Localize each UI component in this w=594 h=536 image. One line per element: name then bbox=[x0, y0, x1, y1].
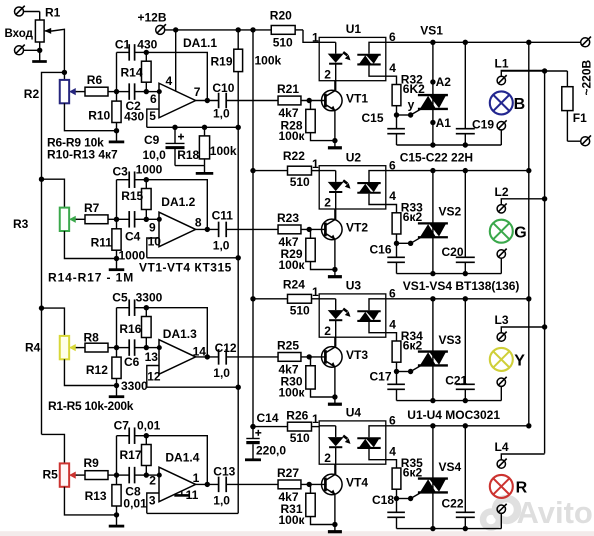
wire mains bus A bbox=[528, 42, 530, 426]
svg-text:100k: 100k bbox=[210, 144, 237, 158]
junction bbox=[250, 424, 255, 429]
svg-text:U1-U4 MOC3021: U1-U4 MOC3021 bbox=[407, 408, 500, 422]
U3 phototriac bbox=[357, 299, 396, 341]
U2 phototriac bbox=[357, 171, 396, 213]
svg-text:VT3: VT3 bbox=[346, 348, 368, 362]
U4 LED bbox=[319, 426, 344, 474]
svg-text:0,01: 0,01 bbox=[123, 497, 147, 511]
wire bbox=[301, 228, 327, 230]
wire bbox=[63, 72, 65, 80]
svg-text:6: 6 bbox=[150, 92, 157, 106]
node gate bbox=[394, 241, 399, 246]
svg-text:5: 5 bbox=[149, 109, 156, 123]
wire riser bbox=[116, 436, 118, 475]
junction bbox=[37, 48, 42, 53]
resistor R17 bbox=[142, 436, 152, 475]
junction bbox=[236, 27, 241, 32]
svg-text:R9: R9 bbox=[84, 456, 100, 470]
node A1 bbox=[430, 116, 451, 130]
svg-text:1,0: 1,0 bbox=[213, 107, 230, 121]
capacitor C5 bbox=[117, 299, 147, 316]
capacitor C9 bbox=[166, 127, 185, 165]
svg-text:C13: C13 bbox=[213, 465, 235, 479]
wire wiper to R9 bbox=[77, 474, 85, 476]
svg-text:6к2: 6к2 bbox=[403, 465, 423, 479]
wire lamp bottom bbox=[500, 513, 502, 528]
svg-text:R21: R21 bbox=[277, 82, 299, 96]
wire lamp bottom bbox=[500, 386, 502, 400]
lamp L3 bottom terminal bbox=[497, 378, 505, 386]
wire collector bbox=[334, 321, 336, 347]
ground emitter bbox=[334, 270, 336, 277]
junction bbox=[114, 128, 119, 133]
node N bbox=[114, 472, 119, 477]
svg-text:R10-R13 4к7: R10-R13 4к7 bbox=[47, 147, 118, 161]
junction bbox=[430, 423, 435, 428]
svg-text:C15: C15 bbox=[362, 111, 384, 125]
lamp L1 bottom terminal bbox=[497, 122, 505, 130]
wire bias line row1 bbox=[147, 126, 239, 128]
svg-text:R13: R13 bbox=[85, 489, 107, 503]
svg-text:C18: C18 bbox=[372, 493, 394, 507]
op-amp DA1.4 bbox=[159, 467, 196, 502]
svg-text:R14-R17 - 1М: R14-R17 - 1М bbox=[48, 271, 134, 285]
wire riser bbox=[116, 308, 118, 348]
node B bbox=[144, 433, 149, 438]
svg-text:3: 3 bbox=[149, 494, 156, 508]
transistor VT1 bbox=[322, 90, 343, 111]
ground bbox=[116, 259, 118, 270]
junction bbox=[430, 40, 435, 45]
U4 phototriac bbox=[357, 426, 396, 468]
svg-text:R3: R3 bbox=[13, 217, 29, 231]
svg-text:1: 1 bbox=[312, 30, 319, 44]
triac VS2 bbox=[418, 171, 448, 274]
svg-text:C12: C12 bbox=[215, 341, 237, 355]
terminal input-bottom bbox=[15, 45, 25, 55]
svg-text:DA1.3: DA1.3 bbox=[163, 327, 197, 341]
svg-text:U1: U1 bbox=[346, 22, 362, 36]
svg-text:R8: R8 bbox=[84, 330, 100, 344]
junction bbox=[463, 526, 468, 531]
svg-text:2: 2 bbox=[324, 67, 331, 81]
junction bbox=[526, 168, 531, 173]
svg-text:F1: F1 bbox=[573, 111, 587, 125]
svg-text:DA1.1: DA1.1 bbox=[183, 36, 217, 50]
svg-text:1,0: 1,0 bbox=[213, 239, 230, 253]
U1 LED bbox=[319, 42, 344, 90]
terminal mains-top bbox=[581, 37, 591, 47]
op-amp DA1.3 bbox=[159, 340, 196, 375]
svg-text:3300: 3300 bbox=[121, 379, 148, 393]
wire non-inverting input bbox=[147, 109, 159, 127]
node A bbox=[144, 217, 149, 222]
resistor R24 bbox=[253, 294, 319, 303]
svg-text:C7: C7 bbox=[114, 419, 130, 433]
wire wiper to R6 bbox=[77, 91, 85, 93]
junction bbox=[205, 354, 210, 359]
wire lamp top bbox=[501, 327, 544, 333]
resistor R15 bbox=[142, 180, 152, 220]
svg-text:C1: C1 bbox=[115, 38, 131, 52]
svg-text:6к2: 6к2 bbox=[403, 210, 423, 224]
svg-text:100к: 100к bbox=[279, 258, 306, 272]
svg-text:11: 11 bbox=[186, 488, 199, 502]
wire collector bbox=[334, 448, 336, 475]
junction bbox=[430, 296, 435, 301]
node B bbox=[144, 305, 149, 310]
wire pot bottom bbox=[64, 359, 116, 385]
capacitor C17 bbox=[387, 372, 405, 401]
capacitor C14 bbox=[246, 430, 261, 460]
capacitor C10 bbox=[218, 93, 220, 109]
terminal input-top bbox=[15, 6, 25, 16]
svg-text:R: R bbox=[516, 480, 528, 497]
junction bbox=[173, 27, 178, 32]
junction bbox=[332, 522, 337, 527]
wire bbox=[226, 483, 278, 485]
wire riser bbox=[116, 180, 118, 220]
svg-text:1000: 1000 bbox=[136, 163, 163, 177]
svg-text:6к2: 6к2 bbox=[403, 338, 423, 352]
svg-text:R11: R11 bbox=[91, 236, 113, 250]
svg-text:6K2: 6K2 bbox=[403, 82, 425, 96]
svg-text:1: 1 bbox=[312, 157, 319, 171]
node A bbox=[144, 345, 149, 350]
svg-text:VS2: VS2 bbox=[439, 205, 462, 219]
svg-text:R24: R24 bbox=[283, 278, 305, 292]
ground bbox=[116, 386, 118, 397]
lamp L1 bbox=[490, 91, 513, 114]
wire output bbox=[196, 356, 219, 358]
junction bbox=[114, 512, 119, 517]
lamp L4 bbox=[490, 475, 513, 498]
svg-text:VS3: VS3 bbox=[439, 333, 462, 347]
wire DA1.1 pin4 bbox=[175, 30, 177, 91]
wire bias stub bbox=[147, 386, 238, 388]
wire feedback top bbox=[146, 52, 207, 100]
wire output bbox=[196, 483, 219, 485]
capacitor C20 bbox=[456, 171, 475, 274]
ground under C14 bbox=[245, 458, 261, 461]
junction bbox=[172, 125, 177, 130]
junction bbox=[430, 526, 435, 531]
op-amp DA1.2 bbox=[159, 212, 196, 247]
wire bbox=[226, 356, 278, 358]
svg-text:R22: R22 bbox=[283, 149, 305, 163]
svg-text:4: 4 bbox=[389, 317, 396, 331]
capacitor C21 bbox=[456, 299, 475, 401]
wire bbox=[108, 347, 117, 349]
junction bbox=[307, 482, 312, 487]
wire bbox=[226, 100, 278, 102]
lamp L3 bbox=[490, 348, 513, 371]
svg-text:R25: R25 bbox=[277, 338, 299, 352]
optocoupler U4 bbox=[319, 421, 386, 464]
wire output bbox=[196, 100, 219, 102]
svg-text:R1-R5 10k-200k: R1-R5 10k-200k bbox=[48, 399, 134, 413]
wire output bbox=[196, 228, 219, 230]
svg-text:R20: R20 bbox=[270, 9, 292, 23]
svg-text:1: 1 bbox=[193, 471, 200, 485]
wire bias stub bbox=[147, 512, 238, 514]
optocoupler U2 bbox=[319, 166, 386, 209]
emission arrow bbox=[343, 180, 347, 183]
svg-text:R2: R2 bbox=[24, 87, 40, 101]
svg-text:VS1-VS4 BT138(136): VS1-VS4 BT138(136) bbox=[403, 279, 520, 293]
svg-text:12: 12 bbox=[147, 370, 161, 384]
svg-text:DA1.2: DA1.2 bbox=[161, 195, 195, 209]
capacitor C3 bbox=[117, 171, 147, 188]
wire pot jog bbox=[42, 308, 65, 336]
node gate bbox=[394, 112, 399, 117]
svg-text:220,0: 220,0 bbox=[256, 444, 286, 458]
svg-text:3300: 3300 bbox=[136, 291, 163, 305]
transistor VT2 bbox=[322, 219, 343, 240]
triac VS3 bbox=[418, 299, 448, 401]
svg-text:R14: R14 bbox=[121, 66, 143, 80]
wire non-inverting input bbox=[147, 238, 159, 258]
svg-text:R12: R12 bbox=[86, 363, 108, 377]
resistor R9 bbox=[85, 471, 108, 480]
svg-text:C14: C14 bbox=[257, 411, 279, 425]
svg-text:R7: R7 bbox=[84, 201, 100, 215]
junction bbox=[430, 142, 435, 147]
junction bbox=[114, 256, 119, 261]
wire bbox=[39, 12, 41, 21]
svg-text:1,0: 1,0 bbox=[213, 494, 230, 508]
wire lamp bottom bbox=[500, 130, 502, 145]
lamp L2 bbox=[490, 220, 513, 243]
svg-text:R18: R18 bbox=[177, 148, 199, 162]
wire pot bottom bbox=[64, 103, 116, 130]
resistor R26 bbox=[253, 422, 319, 431]
capacitor C19 bbox=[456, 42, 475, 145]
wire collector bbox=[334, 65, 336, 91]
optocoupler U3 bbox=[319, 294, 386, 337]
svg-text:2: 2 bbox=[324, 324, 331, 338]
wire pot bottom bbox=[64, 231, 116, 259]
lamp L4 bottom terminal bbox=[497, 505, 505, 513]
wire bbox=[108, 218, 117, 220]
U1 phototriac bbox=[357, 42, 396, 84]
lamp L2 bottom terminal bbox=[497, 250, 505, 258]
svg-text:510: 510 bbox=[290, 431, 310, 445]
svg-text:C22: C22 bbox=[442, 497, 464, 511]
capacitor C2 bbox=[117, 83, 147, 100]
resistor R11 bbox=[112, 219, 121, 258]
wire gate bbox=[397, 237, 422, 246]
svg-text:R1: R1 bbox=[45, 6, 61, 20]
svg-text:L1: L1 bbox=[495, 57, 509, 71]
svg-text:R5: R5 bbox=[43, 468, 59, 482]
resistor R16 bbox=[142, 308, 152, 348]
wire lamp feed row1 bbox=[501, 70, 567, 72]
wire non-inverting input bbox=[147, 366, 159, 388]
svg-text:L2: L2 bbox=[495, 185, 509, 199]
capacitor C15 bbox=[387, 115, 405, 145]
junction bbox=[463, 398, 468, 403]
svg-text:100k: 100k bbox=[255, 54, 282, 68]
wire gate bbox=[397, 109, 422, 118]
wire lamp top bbox=[501, 199, 544, 205]
junction bbox=[526, 423, 531, 428]
wire inverting input bbox=[146, 218, 159, 220]
emission arrow bbox=[343, 309, 347, 312]
svg-text:8: 8 bbox=[195, 216, 202, 230]
wire emitter bbox=[334, 367, 336, 397]
node gate bbox=[394, 496, 399, 501]
resistor R33 bbox=[392, 213, 401, 244]
svg-text:R15: R15 bbox=[121, 189, 143, 203]
svg-text:510: 510 bbox=[290, 175, 310, 189]
svg-text:VT4: VT4 bbox=[346, 475, 368, 489]
junction bbox=[332, 267, 337, 272]
svg-text:4: 4 bbox=[389, 444, 396, 458]
capacitor C7 bbox=[117, 427, 147, 444]
capacitor C18 bbox=[387, 499, 405, 529]
resistor R7 bbox=[85, 215, 108, 224]
junction bbox=[205, 227, 210, 232]
capacitor C11 bbox=[218, 222, 220, 238]
resistor R29 bbox=[306, 229, 335, 269]
junction bbox=[307, 98, 312, 103]
svg-text:R4: R4 bbox=[25, 341, 41, 355]
wire inverting input bbox=[146, 91, 159, 93]
node pot-bus junction bbox=[62, 70, 67, 75]
ground under R1 bbox=[32, 60, 47, 63]
svg-text:C15-C22 22Н: C15-C22 22Н bbox=[400, 151, 473, 165]
resistor R32 bbox=[392, 85, 401, 116]
junction bbox=[542, 196, 547, 201]
svg-text:430: 430 bbox=[124, 110, 144, 124]
resistor R8 bbox=[85, 343, 108, 352]
wire +12V rail bbox=[165, 29, 272, 31]
svg-text:4: 4 bbox=[389, 189, 396, 203]
svg-text:A1: A1 bbox=[436, 116, 452, 130]
wire riser bbox=[116, 52, 118, 91]
svg-text:B: B bbox=[514, 96, 526, 113]
svg-text:C6: C6 bbox=[124, 355, 140, 369]
node A bbox=[144, 89, 149, 94]
resistor R23 bbox=[278, 225, 301, 234]
junction bbox=[463, 296, 468, 301]
node N bbox=[114, 345, 119, 350]
junction bbox=[250, 27, 255, 32]
wire feedback top bbox=[146, 180, 207, 230]
transistor VT3 bbox=[322, 347, 343, 368]
svg-text:+12В: +12В bbox=[138, 11, 167, 25]
junction bbox=[526, 40, 531, 45]
svg-text:VT1-VT4 КТ315: VT1-VT4 КТ315 bbox=[139, 261, 232, 275]
resistor R13 bbox=[112, 475, 121, 515]
junction bbox=[205, 482, 210, 487]
ground emitter bbox=[334, 525, 336, 532]
svg-text:13: 13 bbox=[145, 350, 159, 364]
junction bbox=[463, 271, 468, 276]
capacitor C12 bbox=[218, 349, 220, 365]
junction bbox=[236, 385, 241, 390]
svg-text:1000: 1000 bbox=[119, 249, 146, 263]
wire R1 wiper bbox=[44, 28, 64, 73]
svg-text:R10: R10 bbox=[88, 109, 110, 123]
junction bbox=[430, 271, 435, 276]
svg-text:10: 10 bbox=[148, 235, 162, 249]
svg-text:R17: R17 bbox=[120, 448, 142, 462]
junction bbox=[202, 125, 207, 130]
wire bbox=[301, 483, 327, 485]
svg-text:Y: Y bbox=[514, 353, 525, 370]
node A bbox=[144, 472, 149, 477]
wire bottom rail bbox=[397, 528, 502, 530]
junction bbox=[157, 345, 162, 350]
junction bbox=[463, 423, 468, 428]
svg-text:Вход: Вход bbox=[5, 28, 34, 40]
wire gate bbox=[397, 492, 422, 501]
svg-text:1: 1 bbox=[312, 412, 319, 426]
resistor R1 (potentiometer) bbox=[35, 20, 44, 61]
wire rail bbox=[386, 170, 529, 172]
node bias row1 bbox=[236, 125, 241, 130]
emission arrow bbox=[343, 52, 347, 55]
junction bbox=[332, 394, 337, 399]
wire lamp top bbox=[501, 454, 544, 460]
wire bbox=[175, 165, 205, 167]
node N bbox=[114, 89, 119, 94]
ground bbox=[116, 515, 118, 526]
triac VS4 bbox=[418, 426, 448, 529]
wire pot jog bbox=[42, 434, 65, 463]
fuse F1 bbox=[562, 71, 573, 141]
wire collector bbox=[334, 193, 336, 220]
resistor R22 bbox=[253, 166, 319, 175]
capacitor C6 bbox=[117, 339, 147, 356]
wire mains rail bbox=[386, 41, 581, 43]
resistor R19 bbox=[234, 30, 243, 127]
resistor R35 bbox=[392, 468, 401, 499]
wire gate bbox=[397, 365, 422, 374]
wire bias bus bbox=[237, 127, 239, 513]
resistor R31 bbox=[306, 484, 335, 524]
resistor R12 bbox=[112, 348, 121, 386]
ground under R18 bbox=[204, 166, 206, 174]
svg-text:9: 9 bbox=[149, 221, 156, 235]
svg-text:100к: 100к bbox=[279, 386, 306, 400]
wire bottom rail bbox=[397, 400, 502, 402]
resistor R30 bbox=[306, 357, 335, 397]
terminal mains-bottom bbox=[581, 135, 591, 145]
svg-text:Avito: Avito bbox=[517, 495, 593, 530]
wire pot jog bbox=[42, 179, 65, 207]
junction bbox=[250, 424, 255, 429]
capacitor C8 bbox=[117, 467, 147, 484]
wire rail bbox=[386, 425, 529, 427]
svg-text:C9: C9 bbox=[144, 133, 160, 147]
wire +12V bus bbox=[252, 30, 254, 439]
svg-text:R16: R16 bbox=[119, 322, 141, 336]
resistor R10 bbox=[112, 92, 121, 131]
node pot jog bbox=[39, 305, 44, 310]
svg-text:1,0: 1,0 bbox=[213, 366, 230, 380]
svg-text:C3: C3 bbox=[113, 165, 129, 179]
svg-text:G: G bbox=[514, 224, 526, 241]
svg-text:U3: U3 bbox=[346, 279, 362, 293]
junction bbox=[430, 168, 435, 173]
wire emitter bbox=[334, 110, 336, 140]
node N bbox=[114, 217, 119, 222]
svg-text:C17: C17 bbox=[370, 370, 392, 384]
emission arrow bbox=[343, 436, 347, 439]
